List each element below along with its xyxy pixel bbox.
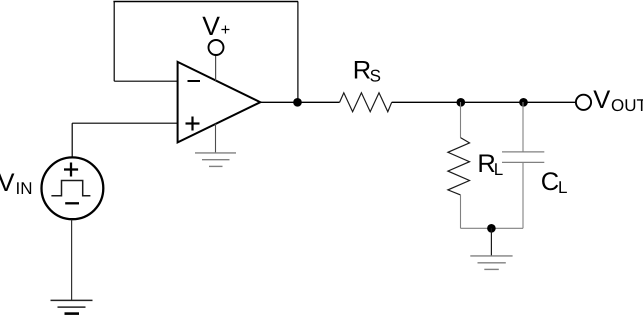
resistor RS	[340, 93, 392, 112]
resistor RL	[448, 138, 470, 195]
wire VIN top vertical	[71, 123, 73, 158]
label V+	[202, 11, 230, 41]
op-amp plus pin marking	[186, 117, 200, 131]
node load ground junction	[487, 224, 496, 233]
svg-text:V: V	[0, 169, 15, 197]
wire feedback into inverting input	[114, 80, 178, 82]
svg-text:C: C	[541, 168, 559, 196]
svg-text:IN: IN	[16, 179, 33, 198]
VIN plus sign	[64, 168, 78, 170]
svg-text:+: +	[221, 21, 231, 39]
label RS	[353, 57, 381, 86]
node RL tap	[456, 98, 465, 107]
svg-text:S: S	[370, 67, 381, 86]
svg-text:OUT: OUT	[611, 96, 643, 115]
VIN minus sign	[65, 202, 79, 204]
svg-text:L: L	[558, 178, 567, 197]
VIN pulse symbol	[51, 181, 90, 196]
ground (VIN)	[51, 300, 93, 313]
op-amp U1	[178, 62, 261, 142]
svg-text:V: V	[593, 86, 610, 114]
ground (op-amp)	[195, 153, 236, 167]
capacitor CL	[502, 152, 544, 163]
wire VIN to ground	[71, 220, 73, 301]
wire feedback top horizontal	[113, 1, 298, 3]
ground (load)	[470, 256, 512, 270]
node CL tap	[519, 98, 528, 107]
label VIN	[0, 169, 33, 198]
wire junction to ground	[490, 228, 492, 256]
label CL	[541, 168, 568, 197]
terminal VOUT	[576, 95, 591, 110]
wire RS to VOUT	[392, 101, 576, 103]
wire CL top connector	[522, 102, 524, 152]
wire CL bottom connector	[522, 162, 524, 228]
svg-text:L: L	[494, 160, 503, 179]
wire feedback right vertical (output node up)	[297, 2, 299, 103]
label VOUT	[593, 86, 643, 115]
op-amp minus pin marking	[188, 80, 201, 82]
wire noninverting input horizontal	[72, 122, 178, 124]
svg-text:V: V	[202, 11, 220, 41]
wire op-amp to ground	[215, 124, 217, 153]
node feedback tap	[293, 98, 302, 107]
terminal V+	[209, 40, 224, 55]
wire op-amp output to RS	[260, 101, 340, 103]
label RL	[477, 150, 503, 179]
voltage source VIN	[42, 157, 104, 219]
wire load bottom horizontal	[461, 227, 524, 229]
wire RL bottom connector	[460, 195, 462, 228]
wire V+ supply to op-amp	[215, 55, 217, 81]
wire RL top connector	[460, 102, 462, 138]
svg-text:R: R	[353, 57, 371, 85]
wire feedback left vertical	[113, 2, 115, 82]
